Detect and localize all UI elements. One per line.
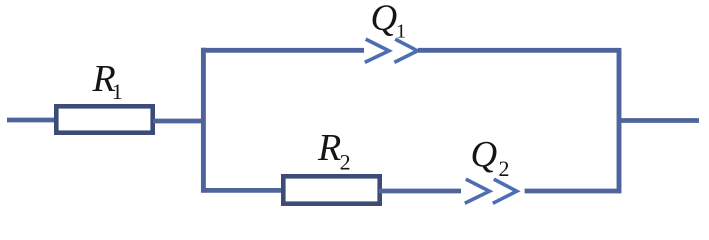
wire top branch left	[201, 48, 364, 53]
svg-text:2: 2	[340, 150, 351, 175]
wire R2 to Q2	[379, 189, 461, 194]
resistor R1	[56, 106, 152, 132]
svg-text:R: R	[317, 127, 341, 169]
node junction vertical wire	[201, 48, 206, 193]
transistor Q2 chevron 1	[465, 179, 490, 203]
svg-text:Q: Q	[371, 0, 398, 39]
wire bottom branch left	[201, 188, 283, 193]
svg-text:Q: Q	[471, 135, 498, 176]
wire left entry	[7, 118, 56, 123]
wire R1 to node	[153, 119, 204, 124]
wire bottom branch right	[525, 189, 621, 194]
svg-text:2: 2	[499, 156, 510, 181]
svg-text:1: 1	[112, 79, 123, 104]
transistor Q2 chevron 2	[493, 179, 517, 203]
wire right vertical	[617, 48, 622, 193]
transistor Q1 chevron 2	[394, 39, 417, 62]
svg-text:1: 1	[396, 21, 406, 43]
wire top branch right	[418, 48, 621, 53]
resistor R2	[283, 176, 379, 203]
wire exit right	[619, 118, 699, 123]
transistor Q1 chevron 1	[365, 39, 389, 62]
